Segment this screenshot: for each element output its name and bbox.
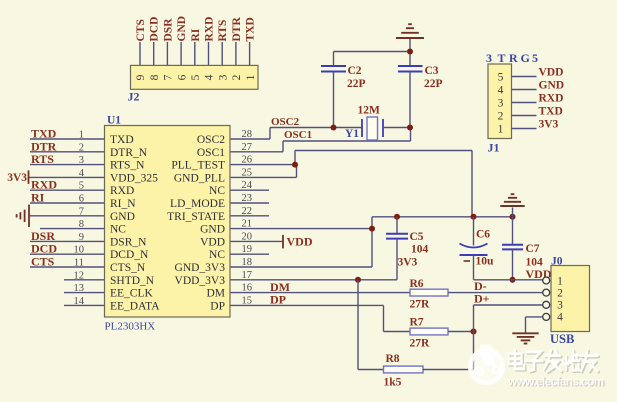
svg-text:6: 6 [176,74,188,80]
svg-text:J1: J1 [488,141,500,155]
svg-text:11: 11 [74,258,84,269]
svg-text:27R: 27R [410,338,431,350]
svg-text:3: 3 [217,74,229,80]
svg-text:3: 3 [557,300,563,312]
svg-text:5: 5 [532,51,538,65]
svg-text:PLL_TEST: PLL_TEST [171,160,225,172]
svg-text:C5: C5 [410,231,424,243]
svg-text:GND: GND [200,224,225,236]
svg-text:CTS: CTS [31,255,55,269]
svg-text:OSC2: OSC2 [197,134,225,146]
svg-text:R7: R7 [410,317,424,329]
svg-text:5: 5 [498,71,504,83]
svg-text:NC: NC [209,249,225,261]
svg-text:10u: 10u [476,256,495,268]
svg-text:J0: J0 [551,256,563,268]
svg-text:22: 22 [242,206,253,217]
svg-text:USB: USB [550,332,574,346]
svg-text:GND: GND [110,211,135,223]
svg-text:4: 4 [79,168,85,179]
svg-text:DSR_N: DSR_N [110,236,147,248]
svg-text:3: 3 [486,51,492,65]
svg-text:13: 13 [74,283,85,294]
svg-text:14: 14 [74,296,85,307]
svg-text:3V3: 3V3 [398,257,418,269]
svg-text:EE_DATA: EE_DATA [110,300,160,312]
svg-text:DP: DP [210,300,225,312]
svg-text:22P: 22P [424,78,443,90]
svg-text:3: 3 [498,97,504,109]
svg-text:2: 2 [231,74,243,80]
svg-text:G: G [521,51,530,65]
svg-text:5: 5 [190,74,202,80]
svg-text:1: 1 [79,130,84,141]
svg-text:DSR: DSR [162,18,174,42]
svg-text:NC: NC [209,185,225,197]
svg-text:Y1: Y1 [345,128,359,140]
svg-text:DCD_N: DCD_N [110,249,149,261]
svg-text:27R: 27R [410,299,431,311]
svg-text:R: R [509,51,518,65]
svg-text:R6: R6 [410,278,424,290]
svg-text:RTS: RTS [31,152,54,166]
svg-text:VDD: VDD [200,236,225,248]
svg-text:7: 7 [79,206,84,217]
svg-text:R8: R8 [386,353,400,365]
svg-text:GND: GND [539,80,565,92]
svg-text:RXD: RXD [204,17,216,42]
svg-text:3V3: 3V3 [539,119,559,131]
svg-text:1k5: 1k5 [384,377,402,389]
svg-text:3: 3 [79,155,84,166]
svg-text:9: 9 [79,232,84,243]
svg-text:www.elecfans.com: www.elecfans.com [507,375,604,389]
svg-text:RI: RI [31,191,45,205]
svg-text:24: 24 [242,180,253,191]
svg-text:C2: C2 [348,65,362,77]
svg-text:TXD: TXD [245,17,257,41]
svg-text:VDD_325: VDD_325 [110,172,158,184]
svg-text:PL2303HX: PL2303HX [105,321,156,333]
svg-text:22P: 22P [347,78,366,90]
svg-text:CTS_N: CTS_N [110,262,146,274]
svg-text:DCD: DCD [149,17,161,42]
svg-text:EE_CLK: EE_CLK [110,288,153,300]
svg-text:1: 1 [245,74,257,80]
svg-text:J2: J2 [128,90,140,104]
svg-text:LD_MODE: LD_MODE [170,198,225,210]
svg-text:19: 19 [242,244,253,255]
svg-text:6: 6 [79,194,84,205]
svg-text:C6: C6 [476,229,490,241]
svg-text:OSC1: OSC1 [197,147,225,159]
svg-text:U1: U1 [107,115,121,127]
svg-text:2: 2 [498,110,504,122]
svg-text:104: 104 [411,244,429,256]
svg-text:RXD: RXD [110,185,134,197]
svg-text:C7: C7 [526,243,540,255]
svg-text:5: 5 [79,181,84,192]
svg-text:1: 1 [498,123,504,135]
svg-text:RXD: RXD [539,93,564,105]
svg-text:RTS: RTS [217,20,229,42]
svg-text:TXD: TXD [539,106,563,118]
svg-text:RI_N: RI_N [110,198,136,210]
svg-text:VDD: VDD [539,67,564,79]
svg-text:CTS: CTS [135,19,147,41]
svg-text:2: 2 [79,142,84,153]
svg-text:DTR_N: DTR_N [110,147,148,159]
svg-text:T: T [498,51,506,65]
svg-text:DP: DP [270,293,286,307]
svg-text:4: 4 [204,74,216,80]
svg-text:3V3: 3V3 [7,172,27,184]
svg-text:7: 7 [163,74,175,80]
svg-text:VDD: VDD [287,234,313,248]
svg-text:4: 4 [557,312,563,324]
svg-text:12: 12 [74,270,85,281]
svg-text:OSC2: OSC2 [271,116,300,128]
svg-text:SHTD_N: SHTD_N [110,275,155,287]
svg-text:TRI_STATE: TRI_STATE [167,211,225,223]
svg-text:NC: NC [110,224,126,236]
svg-text:DTR: DTR [231,17,243,42]
svg-text:8: 8 [79,219,84,230]
svg-text:GND_3V3: GND_3V3 [175,262,226,274]
svg-text:9: 9 [135,74,147,80]
svg-text:GND_PLL: GND_PLL [174,172,225,184]
svg-text:2: 2 [557,287,563,299]
svg-text:OSC1: OSC1 [284,129,312,141]
svg-text:D+: D+ [474,292,490,306]
svg-text:12M: 12M [358,105,381,117]
svg-text:23: 23 [242,193,253,204]
svg-text:VDD_3V3: VDD_3V3 [175,275,226,287]
svg-text:1: 1 [557,275,563,287]
svg-text:8: 8 [149,74,161,80]
svg-text:RI: RI [190,28,202,41]
svg-text:RTS_N: RTS_N [110,160,145,172]
svg-text:TXD: TXD [110,134,134,146]
svg-text:4: 4 [498,84,504,96]
svg-text:GND: GND [176,16,188,42]
svg-text:10: 10 [74,245,85,256]
svg-text:DM: DM [206,288,225,300]
svg-text:C3: C3 [425,65,439,77]
